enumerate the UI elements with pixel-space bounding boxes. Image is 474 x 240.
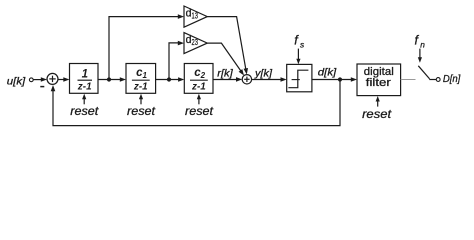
node y[k] label bbox=[254, 68, 273, 80]
output terminal circle bbox=[436, 78, 440, 82]
svg-text:filter: filter bbox=[366, 77, 391, 89]
svg-text:D[n]: D[n] bbox=[443, 73, 461, 85]
svg-text:2: 2 bbox=[200, 71, 206, 80]
value label c1/(z-1) bbox=[132, 67, 150, 92]
wire junction up and right to d23 bbox=[169, 41, 184, 80]
svg-text:s: s bbox=[300, 39, 304, 49]
integrator block c2/(z-1) bbox=[184, 64, 213, 94]
svg-text:1: 1 bbox=[142, 71, 147, 80]
clock fs arrow bbox=[296, 49, 300, 65]
junction node after c1 block bbox=[167, 77, 171, 81]
wire junction up and right to d13 bbox=[109, 14, 184, 79]
svg-text:z-1: z-1 bbox=[77, 81, 92, 93]
reset arrow of integrator 2 bbox=[139, 94, 143, 105]
svg-text:u[k]: u[k] bbox=[7, 76, 27, 88]
wire u[k] to summer bbox=[33, 77, 47, 82]
feedback wire d[k] to S1 bbox=[51, 80, 340, 126]
svg-text:y[k]: y[k] bbox=[254, 68, 273, 80]
wire d13 output to summer S2 bbox=[207, 17, 248, 75]
svg-text:z-1: z-1 bbox=[133, 81, 148, 93]
svg-text:f: f bbox=[294, 33, 299, 47]
clock fs label bbox=[294, 33, 304, 49]
node D[n] output label bbox=[443, 73, 461, 85]
value label c2/(z-1) bbox=[190, 67, 208, 92]
svg-text:reset: reset bbox=[362, 107, 392, 121]
wire S2 to quantizer bbox=[252, 77, 287, 82]
sampling switch arm bbox=[418, 66, 436, 80]
junction node after integrator 1 bbox=[107, 77, 111, 81]
svg-text:1: 1 bbox=[82, 68, 88, 80]
input terminal circle bbox=[29, 78, 33, 82]
reset label 2 bbox=[127, 104, 156, 118]
svg-text:n: n bbox=[420, 39, 425, 49]
svg-text:reset: reset bbox=[70, 104, 99, 118]
svg-text:d[k]: d[k] bbox=[318, 67, 338, 79]
svg-text:z-1: z-1 bbox=[191, 81, 206, 93]
quantizer U1 bbox=[287, 64, 312, 91]
wire integrator1 to c1 block bbox=[98, 77, 126, 82]
amplifier d23 bbox=[184, 33, 207, 54]
digital filter label bbox=[364, 66, 394, 89]
reset arrow of digital filter bbox=[376, 96, 380, 107]
summing node S1 bbox=[47, 73, 58, 84]
wire c1 block to c2 block bbox=[156, 77, 185, 82]
reset arrow of integrator 1 bbox=[82, 94, 86, 105]
svg-text:f: f bbox=[415, 33, 420, 47]
wire digital filter to switch bbox=[401, 79, 416, 81]
integrator block 1/(z-1) bbox=[70, 64, 99, 94]
amplifier d13 bbox=[184, 6, 207, 27]
clock fn arrow bbox=[418, 49, 422, 63]
label d13 bbox=[186, 8, 199, 21]
reset label 1 bbox=[70, 104, 99, 118]
svg-text:13: 13 bbox=[192, 12, 199, 21]
svg-text:reset: reset bbox=[185, 104, 214, 118]
label d23 bbox=[186, 34, 199, 47]
wire quantizer to digital filter bbox=[312, 77, 357, 82]
integrator block c1/(z-1) bbox=[126, 64, 156, 94]
junction node d[k] bbox=[338, 77, 342, 81]
node d[k] label bbox=[318, 67, 338, 79]
reset label digital filter bbox=[362, 107, 392, 121]
reset arrow of integrator 3 bbox=[197, 94, 201, 105]
svg-text:reset: reset bbox=[127, 104, 156, 118]
wire S1 to integrator 1 bbox=[58, 77, 69, 82]
summing node S2 bbox=[242, 75, 251, 84]
node u[k] input label bbox=[7, 76, 27, 88]
reset label 3 bbox=[185, 104, 214, 118]
svg-text:r[k]: r[k] bbox=[217, 68, 234, 80]
svg-text:23: 23 bbox=[192, 38, 199, 47]
value label 1/(z-1) bbox=[77, 68, 92, 92]
node r[k] label bbox=[217, 68, 234, 80]
minus sign at S1 feedback input bbox=[40, 86, 44, 88]
clock fn label bbox=[415, 33, 426, 49]
digital filter block bbox=[357, 64, 401, 96]
wire d23 output to summer S2 bbox=[207, 43, 244, 75]
wire c2 block to summer S2 bbox=[213, 77, 242, 82]
